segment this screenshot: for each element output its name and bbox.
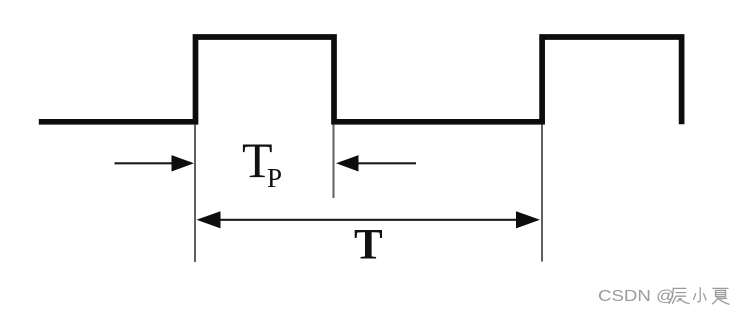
svg-text:CSDN @: CSDN @	[598, 288, 675, 305]
watermark glyph chen	[669, 288, 689, 303]
watermark glyph xia	[712, 288, 729, 304]
node extension line at falling edge 1	[333, 125, 335, 199]
node Tp right arrowhead	[336, 155, 359, 171]
node T dimension left arrowhead	[197, 211, 221, 228]
svg-text:P: P	[267, 163, 282, 193]
node extension line at rising edge 2	[541, 125, 543, 262]
wire T dimension shaft	[216, 219, 520, 221]
node Tp left arrowhead	[172, 155, 195, 171]
wire Tp right arrow shaft	[357, 162, 416, 164]
svg-text:T: T	[354, 222, 383, 269]
node T dimension right arrowhead	[516, 211, 540, 228]
wire pulse waveform	[39, 37, 682, 124]
wire Tp left arrow shaft	[115, 162, 175, 164]
node extension line at rising edge 1	[194, 125, 196, 263]
watermark glyph xiao	[694, 288, 707, 302]
